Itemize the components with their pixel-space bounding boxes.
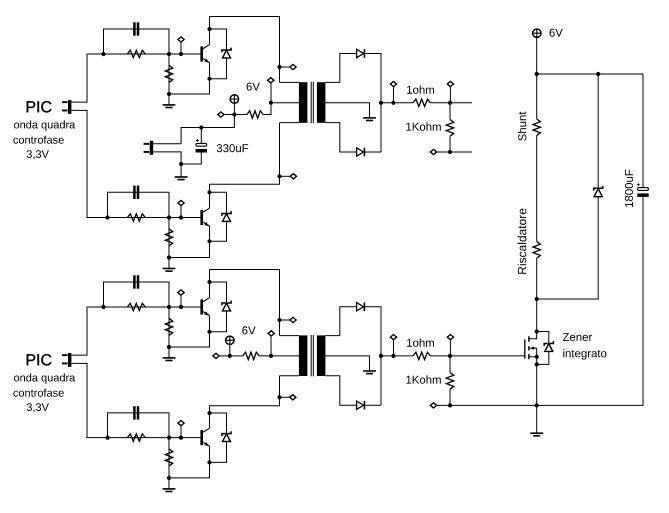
- junction 6V node (bottom): [228, 354, 232, 358]
- junction Q1 test point: [179, 52, 183, 56]
- junction return rail (top): [448, 150, 452, 154]
- label "controfase" (bottom): [13, 389, 63, 397]
- junction Q3 base node: [167, 305, 171, 309]
- zener diode Q2: [222, 211, 231, 221]
- test point output (left): [390, 81, 396, 86]
- wire 1Kohm bottom lead: [449, 136, 451, 152]
- test point output (bottom): [390, 335, 396, 340]
- transistor Q2 NPN: [200, 208, 209, 226]
- label "integrato": [563, 349, 606, 360]
- junction Q1 collector node: [207, 27, 211, 31]
- capacitor Q3 speed-up: [133, 275, 139, 288]
- resistor Q4 pull-down: [165, 449, 172, 466]
- wire resistor to center tap: [263, 103, 299, 115]
- junction Q1 emitter node: [207, 77, 211, 81]
- junction primary-bottom rail (bottom): [277, 395, 281, 399]
- wire output row: [381, 102, 413, 104]
- test point return (top): [430, 149, 436, 154]
- wire primary bottom terminal (bottom): [280, 375, 300, 377]
- ground filter: [175, 177, 188, 180]
- label "onda quadra": [14, 120, 75, 130]
- junction primary-top rail (bottom): [277, 318, 281, 322]
- junction MOSFET source node: [535, 355, 539, 359]
- junction Q1 input: [101, 52, 105, 56]
- transistor Q5 MOSFET "Zener integrato": [525, 332, 537, 365]
- transformer T2: [299, 335, 326, 376]
- wire primary top test lead (bottom): [280, 319, 291, 321]
- wire 6V supply lead: [536, 37, 538, 74]
- wire Q2 test point lead: [180, 205, 182, 217]
- test point 1ohm out: [447, 81, 453, 86]
- wire secondary bottom (bottom): [325, 376, 356, 405]
- capacitor C1 330uF: [196, 139, 207, 152]
- junction Q4 test point: [179, 436, 183, 440]
- wire Q4 emitter: [169, 446, 210, 478]
- wire D4 to output rail: [365, 307, 381, 406]
- resistor Q2 pull-down: [165, 229, 172, 246]
- junction Q3 test point: [179, 305, 183, 309]
- wire source to ground rail: [536, 364, 538, 405]
- connector J1 "PIC": [62, 100, 71, 114]
- wire primary bottom terminal: [280, 122, 300, 124]
- wire primary bottom test lead: [280, 175, 291, 177]
- junction output sense (bottom): [391, 354, 395, 358]
- junction Q2 collector node: [207, 190, 211, 194]
- test point Q1: [178, 37, 184, 42]
- wire 6V test lead (bottom): [219, 355, 230, 357]
- wire Q4 collector: [210, 376, 280, 429]
- junction primary-top rail: [277, 65, 281, 69]
- wire shunt to heater: [536, 136, 538, 242]
- junction ground rail node: [535, 403, 539, 407]
- ground Q1: [163, 105, 176, 108]
- wire 6V power lead: [233, 103, 235, 114]
- test point 6V (bottom block): [213, 353, 219, 358]
- wire 1ohm out: [430, 102, 472, 104]
- junction Q3 input: [101, 305, 105, 309]
- wire primary top terminal: [280, 81, 300, 83]
- wire Q1 base row: [104, 53, 201, 55]
- label "6V" (top block): [247, 83, 260, 91]
- junction Q4 emitter node: [207, 460, 211, 464]
- junction return rail (bottom): [448, 403, 452, 407]
- resistor Q1 base: [127, 50, 145, 57]
- label "Shunt": [518, 112, 526, 141]
- ground Q3: [163, 358, 176, 361]
- wire PIC pin2 to lower driver: [71, 110, 107, 217]
- junction 6V node: [232, 112, 236, 116]
- wire D5 to output rail: [365, 404, 381, 406]
- wire output test lead: [393, 86, 395, 102]
- label "onda quadra" (bottom): [14, 373, 75, 383]
- resistor 1ohm (top): [413, 99, 430, 106]
- capacitor Q1 speed-up: [133, 22, 139, 35]
- wire center tap test lead: [270, 83, 272, 103]
- junction Q3 emitter node: [207, 330, 211, 334]
- transistor Q3 NPN: [200, 298, 209, 316]
- junction Q1 base node: [167, 52, 171, 56]
- test point primary bottom (bottom): [290, 395, 296, 400]
- ground Q4: [163, 489, 176, 492]
- wire Q1 collector-zener link: [210, 29, 227, 79]
- test point primary bottom: [290, 174, 296, 179]
- resistor Riscaldatore: [533, 241, 540, 258]
- junction output rail (bottom): [379, 354, 383, 358]
- resistor 1Kohm (top): [446, 120, 453, 137]
- wire Q2 pull-down lead: [168, 218, 170, 258]
- wire Q3 collector: [210, 270, 280, 336]
- test point gate node: [447, 335, 453, 340]
- wire Q3 cap branch: [104, 282, 170, 307]
- wire secondary top (bottom): [325, 307, 356, 336]
- label "1Kohm" (top): [406, 122, 441, 130]
- zener diode Q3: [222, 301, 231, 311]
- label "PIC": [27, 101, 52, 112]
- test point 6V (top block): [218, 112, 224, 117]
- junction source-zener node: [535, 362, 539, 366]
- wire secondary bottom: [325, 123, 356, 152]
- capacitor Q4 speed-up: [133, 406, 139, 419]
- wire Q2 ground lead: [168, 258, 170, 269]
- junction Q2 emitter node: [207, 239, 211, 243]
- wire 1ohm out to gate: [430, 355, 524, 357]
- wire D1 to output rail: [365, 54, 381, 153]
- wire Q3 base row: [104, 306, 201, 308]
- zener diode Q1: [222, 48, 231, 58]
- wire filter ground lead: [180, 164, 182, 177]
- ground main: [530, 433, 543, 436]
- wire Q2 collector: [210, 123, 280, 209]
- wire Q3 collector-zener link: [210, 282, 227, 332]
- resistor Q4 base: [127, 434, 145, 441]
- zener diode Q4: [222, 431, 231, 441]
- wire resistor to center tap (bottom): [259, 355, 299, 357]
- power symbol 6V (bottom block): [226, 336, 234, 344]
- resistor Q1 pull-down: [165, 65, 172, 82]
- label "1ohm" (top): [407, 85, 434, 93]
- label "Riscaldatore": [518, 209, 527, 274]
- junction Q4 input: [105, 436, 109, 440]
- capacitor C2 1800uF: [637, 183, 649, 197]
- resistor Q3 base: [127, 303, 145, 310]
- test point center tap (bottom): [268, 331, 274, 336]
- wire return rail (bottom): [436, 404, 536, 406]
- wire supply rail: [537, 74, 643, 187]
- label "1800uF": [625, 170, 633, 207]
- junction primary-bottom rail: [277, 174, 281, 178]
- wire Q2 emitter: [169, 226, 210, 258]
- wire drain-zener link: [537, 332, 549, 365]
- test point primary top (bottom): [290, 317, 296, 322]
- junction Q1 emitter return: [167, 92, 171, 96]
- wire D2 to output rail: [365, 151, 381, 153]
- junction filter cap top: [199, 125, 203, 129]
- wire Q3 test point lead: [180, 295, 182, 307]
- diode D5 rectifier bottom (bottom): [357, 401, 365, 410]
- wire Q1 cap branch: [104, 29, 170, 54]
- wire Q2 cap branch: [108, 192, 170, 217]
- wire Q4 base row: [108, 437, 201, 439]
- junction Q3 emitter return: [167, 345, 171, 349]
- junction supply-shunt: [535, 72, 539, 76]
- wire Q3 pull-down lead: [168, 307, 170, 347]
- wire 6V test lead: [224, 114, 235, 116]
- junction output rail: [379, 101, 383, 105]
- wire PIC2 pin2 to lower driver: [71, 363, 107, 437]
- test point Q2: [178, 200, 184, 205]
- label "3,3V" (bottom): [27, 403, 49, 412]
- test point center tap: [268, 78, 274, 83]
- junction Q2 emitter return: [167, 255, 171, 259]
- ground secondary center (bottom): [363, 371, 376, 374]
- label "1ohm" (bottom): [407, 338, 434, 346]
- wire 1Kohm bottom lead (bottom): [449, 389, 451, 405]
- label "6V" (main): [550, 29, 563, 37]
- ground Q2: [163, 269, 176, 272]
- test point return (bottom): [430, 403, 436, 408]
- label "330uF": [217, 144, 249, 152]
- diode D1 rectifier top: [357, 49, 365, 58]
- wire PIC pin1 to upper driver: [71, 54, 103, 102]
- junction heater-diode node: [535, 297, 539, 301]
- wire 1800uF to ground rail: [537, 197, 643, 406]
- wire J2 pin2: [153, 152, 181, 164]
- wire gate test lead: [449, 340, 451, 356]
- junction gate node: [448, 354, 452, 358]
- wire return rail (top): [436, 151, 472, 153]
- wire diode branch: [537, 74, 599, 299]
- resistor center-tap feed (top): [247, 111, 263, 118]
- wire 6V to filter branch: [181, 115, 234, 144]
- wire 6V to center-tap resistor: [234, 114, 247, 116]
- label "3,3V": [27, 150, 49, 159]
- wire output test lead (bottom): [393, 340, 395, 356]
- connector J2 6V input: [144, 141, 154, 155]
- test point Q4: [178, 421, 184, 426]
- label "1Kohm" (bottom): [406, 375, 441, 383]
- wire 1ohm out test lead: [449, 86, 451, 102]
- wire Q1 collector: [210, 17, 280, 83]
- resistor Q2 base: [127, 214, 145, 221]
- zener diode of Q5: [544, 341, 553, 351]
- wire main ground lead: [536, 405, 538, 433]
- wire Q4 collector-zener link: [210, 413, 227, 462]
- label "Zener": [563, 333, 592, 341]
- wire 6V to center-tap resistor (bottom): [230, 355, 243, 357]
- wire Q1 test point lead: [180, 42, 182, 54]
- test point primary top: [290, 64, 296, 69]
- test point Q3: [178, 290, 184, 295]
- connector J3 "PIC" (bottom): [62, 353, 71, 367]
- junction Q3 collector node: [207, 280, 211, 284]
- label "6V" (bottom block): [242, 326, 255, 334]
- wire primary top terminal (bottom): [280, 335, 300, 337]
- diode D3 flyback: [594, 186, 603, 197]
- wire Q1 emitter: [169, 63, 210, 95]
- wire 1Kohm top lead: [449, 103, 451, 120]
- wire secondary center tap: [325, 103, 369, 118]
- resistor 1Kohm (bottom): [446, 373, 453, 390]
- junction Q2 input: [105, 215, 109, 219]
- wire 1Kohm top lead (bottom): [449, 356, 451, 373]
- junction Q4 base node: [167, 436, 171, 440]
- wire 6V power lead (bottom): [229, 345, 231, 356]
- label "controfase": [13, 136, 63, 144]
- wire primary top test lead: [280, 66, 291, 68]
- wire Q4 test point lead: [180, 426, 182, 438]
- resistor Q3 pull-down: [165, 318, 172, 335]
- resistor 1ohm (bottom): [413, 352, 430, 359]
- wire Q1 ground lead: [168, 94, 170, 105]
- wire heater bottom lead: [536, 258, 538, 331]
- wire PIC2 pin1 to upper driver: [71, 307, 103, 355]
- wire primary bottom test lead (bottom): [280, 396, 290, 398]
- diode D2 rectifier bottom: [357, 148, 365, 157]
- transistor Q4 NPN: [200, 428, 209, 446]
- wire Q3 ground lead: [168, 347, 170, 358]
- label "PIC" (bottom): [27, 354, 52, 365]
- junction 1ohm out node: [448, 101, 452, 105]
- wire shunt top lead: [536, 74, 538, 119]
- wire Q4 pull-down lead: [168, 438, 170, 478]
- wire Q3 emitter: [169, 316, 210, 348]
- junction center tap node: [269, 101, 273, 105]
- junction output sense: [391, 101, 395, 105]
- capacitor Q2 speed-up: [133, 186, 139, 199]
- wire filter cap top lead: [200, 128, 202, 144]
- wire Q2 collector-zener link: [210, 192, 227, 241]
- junction supply-diode: [596, 72, 600, 76]
- transformer T1: [299, 82, 326, 123]
- transistor Q1 NPN: [200, 45, 209, 63]
- wire Q2 base row: [108, 217, 201, 219]
- junction Q2 test point: [179, 215, 183, 219]
- wire Q1 pull-down lead: [168, 54, 170, 94]
- power symbol 6V (main): [533, 29, 541, 37]
- junction filter ground node: [179, 162, 183, 166]
- diode D4 rectifier top (bottom): [357, 302, 365, 311]
- resistor center-tap feed (bottom): [243, 352, 259, 359]
- wire Q4 ground lead: [168, 478, 170, 489]
- wire Q4 cap branch: [108, 413, 170, 438]
- junction Q4 emitter return: [167, 476, 171, 480]
- resistor Shunt: [533, 119, 540, 136]
- wire J2 pin1: [153, 143, 181, 145]
- wire output row (bottom): [381, 355, 413, 357]
- wire center tap test lead (bottom): [270, 336, 272, 356]
- junction center tap node (bottom): [269, 354, 273, 358]
- wire secondary top: [325, 54, 356, 83]
- junction Q4 collector node: [207, 411, 211, 415]
- wire secondary center tap (bottom): [325, 356, 369, 371]
- ground secondary center: [363, 118, 376, 121]
- junction Q2 base node: [167, 215, 171, 219]
- wire filter cap bottom lead: [181, 153, 201, 165]
- power symbol 6V (top block): [230, 95, 238, 103]
- junction MOSFET drain node: [535, 329, 539, 333]
